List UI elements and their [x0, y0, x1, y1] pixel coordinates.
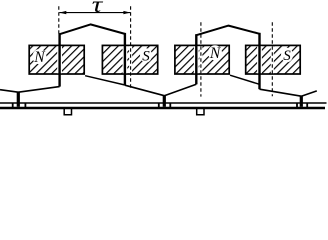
magnet N3: [175, 45, 229, 74]
coil 1 bottom return: [85, 76, 125, 85]
wire link support C to right stub: [301, 91, 317, 96]
centerline halo through magnet S2: [129, 46, 132, 73]
coil 1 left conductor: [58, 33, 60, 86]
dashed centerline magnet S4 (x=272.3): [271, 22, 273, 96]
conductor halo through magnet N1: [57, 46, 62, 73]
coil 1 top end-turn: [60, 24, 125, 34]
coil 2 right conductor: [258, 33, 260, 89]
dimension line tau: [59, 11, 130, 14]
dashed centerline tau-left (x=58.8): [58, 6, 60, 33]
sleeper tab 2: [197, 109, 204, 115]
label S (magnet S4): [281, 48, 293, 64]
coil 2 bottom return: [230, 75, 260, 84]
svg-text:S: S: [142, 49, 150, 65]
dashed centerline magnet N3 (x=200.9): [200, 22, 202, 96]
magnet N1: [29, 45, 84, 74]
label S (magnet S2): [140, 48, 152, 64]
wire link coil2-left to support B: [164, 84, 196, 95]
support B base ticks: [158, 104, 160, 108]
support pedestal A: [17, 92, 20, 107]
svg-text:N: N: [209, 45, 222, 62]
svg-text:N: N: [33, 49, 46, 66]
magnet S2: [102, 45, 157, 74]
wire link coil1-right to support B: [125, 85, 164, 96]
conductor halo through magnet S4: [257, 46, 262, 73]
conductor halo through magnet N3: [194, 46, 199, 73]
svg-text:S: S: [283, 48, 291, 64]
support A base ticks: [12, 104, 14, 108]
label N (magnet N1): [32, 49, 46, 66]
coil 2 top end-turn: [196, 26, 259, 36]
label N (magnet N3): [208, 45, 222, 62]
rail bottom line: [0, 107, 325, 110]
support pedestal C: [300, 96, 303, 107]
coil 1 right conductor: [124, 33, 126, 85]
sleeper tab 1: [64, 109, 71, 115]
centerline halo through magnet S4: [271, 46, 274, 73]
centerline halo through magnet N3: [199, 46, 202, 73]
coil 2 left conductor: [195, 34, 197, 84]
wire link from left edge to support A: [0, 90, 18, 93]
support pedestal B: [163, 95, 166, 107]
wire link coil1-left to support A: [18, 87, 59, 93]
conductor halo through magnet S2: [123, 46, 128, 73]
svg-text:τ: τ: [92, 0, 103, 17]
dashed centerline tau-right / magnet S2 (x=130.6): [130, 6, 132, 89]
rail top line: [0, 102, 327, 104]
magnet S4: [246, 45, 301, 74]
support C base ticks: [296, 104, 298, 108]
wire link coil2-right to support C: [260, 89, 302, 96]
